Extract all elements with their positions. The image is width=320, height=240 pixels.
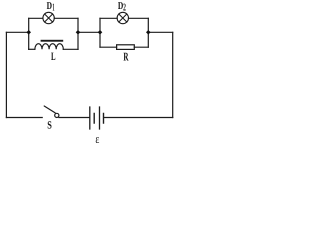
svg-text:S: S <box>47 120 52 132</box>
svg-text:D: D <box>47 1 53 12</box>
svg-text:L: L <box>51 51 56 63</box>
svg-text:R: R <box>123 49 128 63</box>
svg-text:ε: ε <box>95 132 99 143</box>
svg-text:1: 1 <box>52 3 54 14</box>
svg-text:2: 2 <box>123 3 126 14</box>
